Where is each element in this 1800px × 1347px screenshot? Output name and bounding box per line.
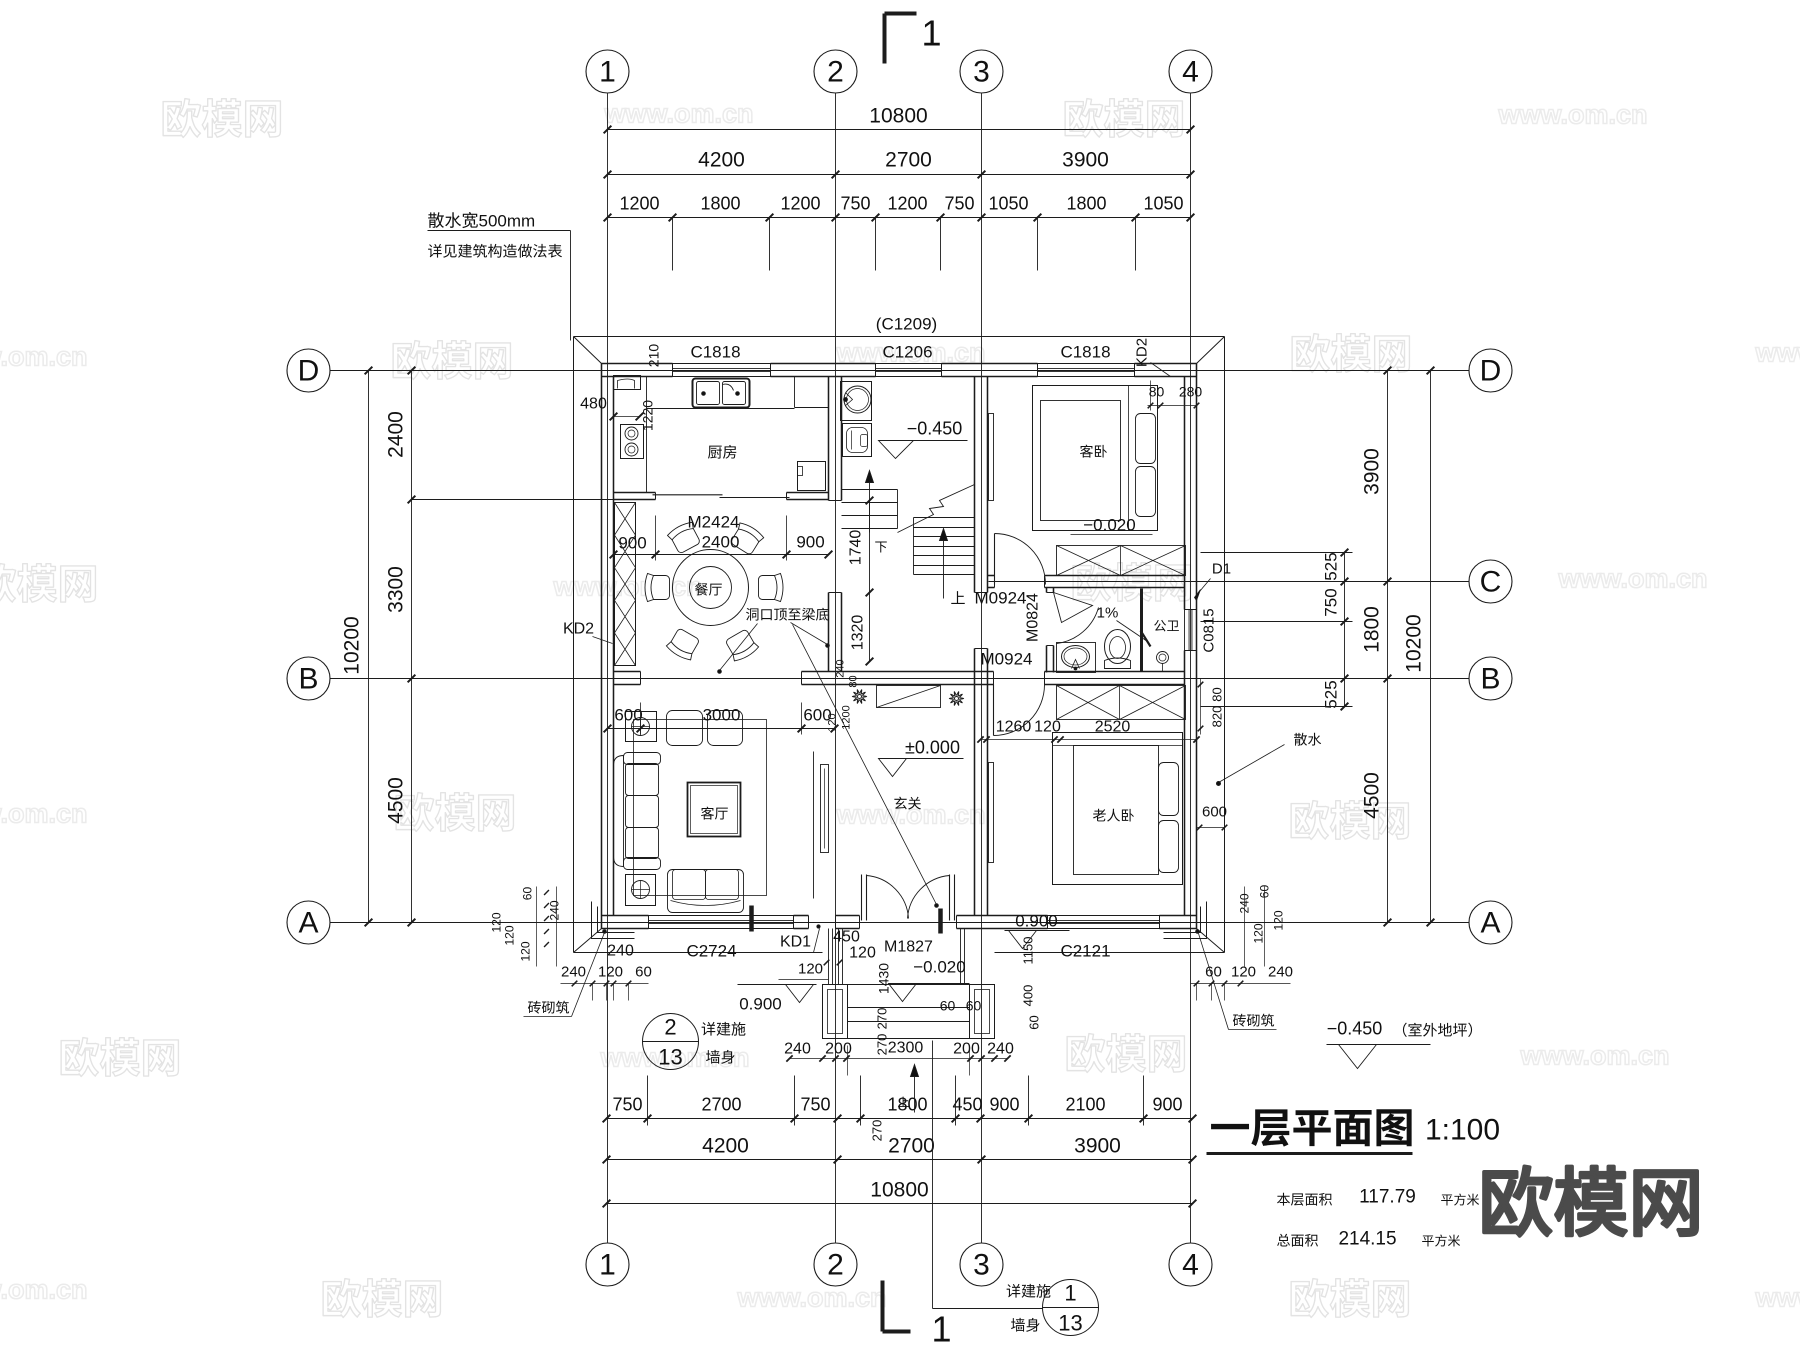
- svg-text:M1827: M1827: [884, 939, 933, 956]
- svg-text:1200: 1200: [841, 705, 853, 729]
- laundry basin: [841, 382, 872, 421]
- svg-text:1320: 1320: [850, 615, 867, 651]
- svg-text:270: 270: [875, 1008, 890, 1030]
- grid bubble 4 bottom: [1169, 1243, 1212, 1286]
- svg-text:www.om.cn: www.om.cn: [1558, 564, 1708, 594]
- svg-text:2: 2: [827, 1249, 844, 1282]
- svg-text:1200: 1200: [780, 194, 820, 214]
- svg-text:www.om.cn: www.om.cn: [1755, 1283, 1800, 1313]
- svg-text:C0815: C0815: [1201, 608, 1218, 652]
- D1 label + C0815: [1195, 561, 1232, 653]
- svg-text:750: 750: [1322, 588, 1341, 616]
- stair dims: [827, 497, 874, 732]
- guest bedroom top dims: [1148, 381, 1203, 411]
- grid line A: [331, 922, 1469, 924]
- side table bottom: [626, 875, 656, 906]
- svg-text:D: D: [298, 355, 320, 388]
- svg-text:1200: 1200: [619, 194, 659, 214]
- entry up arrow: [898, 1065, 918, 1113]
- svg-text:60: 60: [940, 998, 956, 1014]
- grid line 2: [835, 94, 837, 1243]
- door M0924 elderly bedroom: [994, 685, 1045, 736]
- plant left: [852, 690, 866, 704]
- svg-text:4200: 4200: [698, 149, 745, 172]
- svg-text:200: 200: [825, 1041, 852, 1058]
- svg-text:120: 120: [519, 941, 533, 961]
- tv console: [814, 752, 829, 899]
- svg-text:1800: 1800: [1066, 194, 1106, 214]
- level mark -0.450 rear: [879, 419, 968, 459]
- door M0824 bathroom: [1054, 593, 1099, 644]
- elderly wardrobe: [1057, 686, 1186, 720]
- svg-text:200: 200: [953, 1041, 980, 1058]
- svg-text:2520: 2520: [1095, 719, 1131, 736]
- dining dims: [610, 513, 833, 561]
- svg-text:2700: 2700: [885, 149, 932, 172]
- svg-text:C2121: C2121: [1060, 942, 1110, 961]
- svg-text:2700: 2700: [701, 1095, 741, 1115]
- right edge small dims: [1198, 679, 1225, 735]
- svg-text:900: 900: [989, 1095, 1019, 1115]
- svg-text:270: 270: [875, 1034, 890, 1056]
- svg-text:www.om.cn: www.om.cn: [737, 1283, 887, 1313]
- svg-text:750: 750: [840, 194, 870, 214]
- svg-text:www.om.cn: www.om.cn: [1498, 100, 1648, 130]
- svg-text:240: 240: [784, 1041, 811, 1058]
- svg-text:4: 4: [1182, 56, 1199, 89]
- room label bathroom: [1154, 620, 1179, 632]
- grid bubble B right: [1469, 657, 1512, 700]
- dining chairs: [645, 520, 783, 663]
- grid axis lines: [331, 94, 1469, 1243]
- detail note 1/13: [933, 1041, 1099, 1336]
- svg-text:4200: 4200: [702, 1135, 749, 1158]
- bathroom fixtures: [1057, 589, 1169, 673]
- svg-text:1: 1: [931, 1309, 951, 1347]
- svg-text:M0924: M0924: [981, 650, 1033, 669]
- grid bubble 2 top: [814, 50, 857, 93]
- svg-text:4: 4: [1182, 1249, 1199, 1282]
- grid bubble 4 top: [1169, 50, 1212, 93]
- svg-text:B: B: [298, 663, 318, 696]
- svg-text:±0.000: ±0.000: [905, 738, 960, 758]
- grid line kitchen-south extension: [412, 499, 614, 501]
- svg-text:13: 13: [1058, 1311, 1082, 1336]
- svg-text:2100: 2100: [1065, 1095, 1105, 1115]
- grid line 3: [981, 94, 983, 1243]
- guest wardrobe: [1057, 546, 1186, 576]
- grid bubble A left: [287, 901, 330, 944]
- svg-text:M0824: M0824: [1025, 593, 1042, 642]
- svg-text:210: 210: [646, 344, 662, 368]
- 600 dim right: [1197, 804, 1228, 831]
- apron note: [428, 212, 571, 341]
- svg-text:120: 120: [849, 945, 876, 962]
- svg-text:214.15: 214.15: [1338, 1229, 1396, 1250]
- svg-text:−0.020: −0.020: [913, 958, 965, 977]
- window C1818 right: [1037, 364, 1039, 377]
- grid bubble 3 bottom: [960, 1243, 1003, 1286]
- svg-text:10800: 10800: [869, 105, 927, 128]
- section mark 1 bottom: [883, 1281, 952, 1347]
- loveseat bottom: [668, 870, 744, 913]
- grid line C: [989, 581, 1469, 583]
- corner pier bottom-left: [592, 902, 635, 939]
- entry porch steps: [823, 985, 995, 1039]
- sliding door M2424: [653, 494, 723, 496]
- svg-text:525: 525: [1322, 552, 1341, 580]
- svg-text:www.om.cn: www.om.cn: [604, 99, 754, 129]
- grid line B: [331, 678, 1469, 680]
- exterior walls: [602, 364, 1197, 929]
- level -0.450 outdoor: [1327, 1019, 1473, 1069]
- svg-text:750: 750: [800, 1095, 830, 1115]
- svg-text:0.900: 0.900: [1015, 912, 1058, 931]
- grid line D: [331, 370, 1469, 372]
- svg-text:1800: 1800: [1361, 606, 1384, 653]
- grid line 4: [1190, 94, 1192, 1243]
- dining table: [673, 550, 749, 626]
- svg-text:600: 600: [614, 706, 642, 725]
- svg-text:1430: 1430: [876, 963, 892, 994]
- svg-text:1: 1: [599, 56, 616, 89]
- armchair pair top: [667, 711, 703, 746]
- svg-text:2: 2: [664, 1015, 676, 1040]
- svg-text:C1206: C1206: [882, 343, 932, 362]
- svg-text:KD2: KD2: [1134, 338, 1151, 367]
- washing machine: [843, 424, 872, 457]
- svg-text:2: 2: [827, 56, 844, 89]
- svg-text:www.om.cn: www.om.cn: [0, 799, 88, 829]
- brick note right: [1191, 885, 1294, 1030]
- opening annotation: [718, 608, 939, 908]
- grid bubble 3 top: [960, 50, 1003, 93]
- svg-text:120: 120: [1252, 923, 1266, 943]
- top dimension chains: [604, 105, 1195, 271]
- brick note left: [490, 887, 652, 1017]
- svg-text:3900: 3900: [1062, 149, 1109, 172]
- dining cabinet (hatched): [615, 503, 636, 666]
- svg-text:4500: 4500: [1361, 772, 1384, 819]
- svg-text:3900: 3900: [1074, 1135, 1121, 1158]
- grid bubble A right: [1469, 901, 1512, 944]
- svg-text:2400: 2400: [702, 533, 740, 552]
- svg-text:450: 450: [833, 929, 860, 946]
- area table: [1277, 1187, 1479, 1250]
- room label dining: [695, 583, 722, 596]
- svg-text:3: 3: [973, 56, 990, 89]
- svg-text:B: B: [1480, 663, 1500, 696]
- living dims: [604, 703, 839, 735]
- plant right: [949, 692, 963, 706]
- svg-text:A: A: [298, 907, 318, 940]
- svg-text:120: 120: [1272, 910, 1286, 930]
- stairs: [842, 471, 975, 604]
- grid bubble B left: [287, 657, 330, 700]
- svg-text:500mm: 500mm: [479, 212, 536, 231]
- svg-text:900: 900: [1152, 1095, 1182, 1115]
- svg-text:(C1209): (C1209): [876, 315, 937, 334]
- corner pier bottom-right: [1164, 902, 1207, 939]
- svg-text:900: 900: [796, 533, 824, 552]
- svg-text:1260: 1260: [996, 719, 1032, 736]
- svg-text:−0.450: −0.450: [907, 419, 963, 439]
- room label living: [701, 807, 728, 820]
- svg-text:1050: 1050: [988, 194, 1028, 214]
- svg-text:1:100: 1:100: [1425, 1114, 1500, 1147]
- svg-text:1: 1: [599, 1249, 616, 1282]
- porch dims: [784, 937, 1041, 1142]
- grid bubble D left: [287, 349, 330, 392]
- window C1818 left: [672, 364, 674, 377]
- svg-text:www.om.cn: www.om.cn: [0, 1275, 88, 1305]
- entrance double door M1827: [862, 875, 955, 921]
- svg-text:450: 450: [952, 1095, 982, 1115]
- svg-text:60: 60: [521, 887, 535, 901]
- svg-text:120: 120: [598, 964, 623, 981]
- grid line 1: [607, 94, 609, 1243]
- svg-text:60: 60: [1205, 964, 1222, 981]
- svg-text:60: 60: [635, 964, 652, 981]
- window C2724: [648, 916, 650, 929]
- svg-text:60: 60: [966, 998, 982, 1014]
- svg-text:820: 820: [1210, 706, 1225, 728]
- svg-text:C1818: C1818: [1060, 343, 1110, 362]
- top window labels: [690, 315, 1170, 377]
- section cut bars on bottom wall: [749, 906, 754, 932]
- svg-text:60: 60: [1027, 1015, 1042, 1029]
- svg-text:240: 240: [835, 659, 847, 677]
- svg-text:120: 120: [503, 925, 517, 945]
- svg-text:600: 600: [803, 706, 831, 725]
- grid bubble 2 bottom: [814, 1243, 857, 1286]
- elderly bed: [1053, 733, 1183, 885]
- svg-text:120: 120: [1034, 719, 1061, 736]
- window C0815: [1185, 609, 1197, 611]
- svg-text:www.om.cn: www.om.cn: [0, 342, 88, 372]
- right dimension chains: [1201, 367, 1435, 927]
- svg-text:C: C: [1480, 566, 1502, 599]
- svg-text:120: 120: [1231, 964, 1256, 981]
- door labels M0924 / M0824: [975, 589, 1042, 669]
- svg-text:750: 750: [944, 194, 974, 214]
- svg-text:1%: 1%: [1097, 605, 1119, 622]
- svg-text:2700: 2700: [888, 1135, 935, 1158]
- detail note 2/13: [643, 1014, 746, 1070]
- svg-text:900: 900: [618, 534, 646, 553]
- svg-text:480: 480: [580, 396, 607, 413]
- fridge: [798, 462, 826, 491]
- kitchen sink: [693, 379, 750, 408]
- svg-text:3000: 3000: [703, 706, 741, 725]
- stove: [621, 425, 644, 459]
- svg-text:1: 1: [1064, 1281, 1076, 1306]
- svg-text:KD2: KD2: [563, 621, 594, 638]
- KD1 label: [780, 925, 821, 953]
- svg-text:750: 750: [612, 1095, 642, 1115]
- svg-text:1220: 1220: [640, 400, 656, 431]
- svg-text:80: 80: [1210, 687, 1225, 701]
- window C1206: [875, 364, 877, 377]
- svg-text:www.om.cn: www.om.cn: [1520, 1041, 1670, 1071]
- svg-text:270: 270: [870, 1120, 885, 1142]
- porch side walls: [829, 929, 965, 985]
- svg-text:3: 3: [973, 1249, 990, 1282]
- svg-text:D1: D1: [1212, 561, 1231, 578]
- kitchen small dims: [580, 344, 661, 431]
- svg-text:www.om.cn: www.om.cn: [553, 572, 703, 602]
- grid bubble 1 bottom: [586, 1243, 629, 1286]
- svg-text:240: 240: [1268, 964, 1293, 981]
- svg-text:10200: 10200: [341, 616, 364, 674]
- elderly room top dims: [977, 719, 1199, 743]
- svg-text:117.79: 117.79: [1359, 1187, 1416, 1208]
- level 0.900 right: [1005, 912, 1070, 949]
- svg-text:525: 525: [1322, 680, 1341, 708]
- title: [1207, 1109, 1501, 1153]
- room label kitchen: [708, 445, 736, 459]
- svg-text:1: 1: [921, 13, 941, 54]
- svg-text:240: 240: [561, 964, 586, 981]
- svg-text:D: D: [1480, 355, 1502, 388]
- svg-text:240: 240: [548, 900, 562, 920]
- svg-text:1800: 1800: [700, 194, 740, 214]
- room label elderly bedroom: [1093, 809, 1134, 822]
- entrance labels: [779, 929, 970, 1002]
- svg-text:1740: 1740: [848, 530, 865, 566]
- svg-text:0.900: 0.900: [739, 995, 782, 1014]
- living room rug: [634, 720, 767, 896]
- level 0.900 left: [738, 985, 817, 1014]
- bottom dimension chains: [603, 1076, 1197, 1208]
- grid bubble D right: [1469, 349, 1512, 392]
- svg-text:−0.450: −0.450: [1327, 1019, 1383, 1039]
- svg-text:2300: 2300: [888, 1040, 924, 1057]
- svg-text:400: 400: [1021, 985, 1036, 1007]
- svg-text:80: 80: [1149, 384, 1165, 400]
- sofa long: [614, 753, 661, 870]
- door M0924 guest bedroom: [995, 534, 1046, 585]
- svg-text:−0.020: −0.020: [1083, 516, 1135, 535]
- svg-text:M0924: M0924: [975, 589, 1027, 608]
- svg-text:120: 120: [798, 961, 823, 978]
- svg-text:www.om.cn: www.om.cn: [1755, 338, 1800, 368]
- sanshui label right: [1217, 733, 1322, 786]
- grid bubble C right: [1469, 560, 1512, 603]
- coffee table: [688, 783, 741, 837]
- grid bubble 1 top: [586, 50, 629, 93]
- level mark +-0.000: [879, 738, 964, 777]
- KD2 label: [563, 621, 613, 644]
- interior walls: [614, 377, 1185, 916]
- svg-text:1200: 1200: [887, 194, 927, 214]
- section mark 1 top: [885, 13, 942, 64]
- svg-text:80: 80: [848, 675, 860, 687]
- svg-text:2400: 2400: [385, 411, 408, 458]
- kitchen fixtures: [614, 376, 829, 493]
- side table top: [626, 712, 657, 742]
- svg-text:3300: 3300: [385, 566, 408, 613]
- guest bedroom wall panel: [989, 414, 994, 501]
- svg-text:A: A: [1480, 907, 1500, 940]
- grid bubbles: [287, 50, 1512, 1286]
- elderly bedroom wall panel: [989, 763, 994, 863]
- shoe cabinet: [877, 686, 941, 708]
- svg-text:240: 240: [607, 943, 634, 960]
- svg-text:120: 120: [490, 912, 504, 932]
- svg-text:3900: 3900: [1361, 448, 1384, 495]
- svg-text:240: 240: [987, 1041, 1014, 1058]
- svg-text:600: 600: [1202, 804, 1227, 821]
- big logo: [1484, 1166, 1697, 1236]
- left dimension chains: [331, 367, 416, 927]
- room label guest bedroom: [1080, 445, 1107, 458]
- svg-text:13: 13: [658, 1045, 682, 1070]
- svg-text:4500: 4500: [385, 777, 408, 824]
- svg-text:1800: 1800: [887, 1095, 927, 1115]
- svg-text:KD1: KD1: [780, 934, 811, 951]
- svg-text:C1818: C1818: [690, 343, 740, 362]
- svg-text:C2724: C2724: [686, 942, 736, 961]
- window C2121: [1047, 916, 1049, 929]
- svg-text:280: 280: [1179, 384, 1203, 400]
- room label entry: [894, 797, 921, 810]
- splash apron outline: [574, 337, 1225, 953]
- svg-text:10200: 10200: [1403, 614, 1426, 672]
- svg-text:1050: 1050: [1143, 194, 1183, 214]
- svg-text:10800: 10800: [870, 1179, 928, 1202]
- guest bed: [1033, 386, 1158, 531]
- svg-text:M2424: M2424: [688, 513, 740, 532]
